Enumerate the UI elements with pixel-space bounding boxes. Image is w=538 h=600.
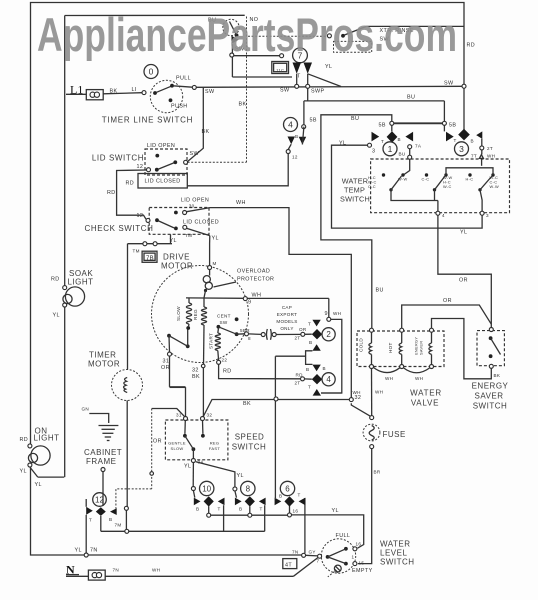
svg-text:12: 12 <box>292 155 298 160</box>
svg-text:YL: YL <box>237 473 244 479</box>
svg-text:BK: BK <box>202 129 210 135</box>
svg-text:WATER: WATER <box>410 388 442 397</box>
svg-text:H-C: H-C <box>466 177 474 182</box>
svg-text:8: 8 <box>248 336 251 341</box>
svg-text:GN: GN <box>82 407 90 412</box>
svg-text:32: 32 <box>355 395 362 401</box>
svg-text:ONLY: ONLY <box>280 326 293 331</box>
svg-text:7B: 7B <box>146 256 154 262</box>
svg-text:SWITCH: SWITCH <box>473 402 508 411</box>
svg-text:OR: OR <box>153 439 162 445</box>
svg-text:0: 0 <box>149 67 154 77</box>
svg-text:YL: YL <box>339 141 346 147</box>
svg-text:CABINET: CABINET <box>84 448 122 457</box>
svg-text:32: 32 <box>207 413 213 418</box>
svg-text:SWITCH: SWITCH <box>340 195 370 204</box>
svg-text:LID CLOSED: LID CLOSED <box>183 220 219 226</box>
svg-text:CHECK SWITCH: CHECK SWITCH <box>85 224 154 233</box>
svg-text:2T: 2T <box>295 336 301 341</box>
svg-text:SWITCH: SWITCH <box>232 443 267 452</box>
svg-text:BU: BU <box>407 95 415 101</box>
svg-text:16: 16 <box>293 509 299 514</box>
svg-text:LID OPEN: LID OPEN <box>181 198 209 204</box>
svg-text:TM: TM <box>133 249 140 254</box>
svg-text:BK: BK <box>243 401 251 407</box>
svg-text:TIMER LINE SWITCH: TIMER LINE SWITCH <box>102 116 193 125</box>
svg-text:4T: 4T <box>285 563 292 569</box>
svg-text:31: 31 <box>176 413 182 418</box>
svg-text:C-C: C-C <box>422 177 430 182</box>
svg-text:5B: 5B <box>449 123 456 129</box>
svg-text:BU: BU <box>376 288 384 294</box>
svg-text:5B: 5B <box>310 118 317 124</box>
svg-text:RD: RD <box>467 43 476 49</box>
svg-text:BK: BK <box>494 373 501 378</box>
svg-text:T: T <box>297 74 301 80</box>
svg-text:2: 2 <box>326 330 331 339</box>
svg-text:SWP: SWP <box>311 89 324 95</box>
svg-text:START: START <box>209 333 214 349</box>
svg-text:B: B <box>239 507 242 512</box>
svg-text:3: 3 <box>372 149 375 155</box>
svg-text:REG: REG <box>210 441 220 446</box>
svg-text:B: B <box>309 340 312 345</box>
svg-text:SW: SW <box>205 89 215 95</box>
svg-text:12: 12 <box>95 495 104 504</box>
svg-text:10: 10 <box>202 484 211 493</box>
svg-text:7N: 7N <box>292 550 298 555</box>
svg-text:LID CLOSED: LID CLOSED <box>144 179 180 185</box>
svg-text:T: T <box>260 507 263 512</box>
svg-text:T: T <box>89 518 92 523</box>
svg-text:SLOW: SLOW <box>176 306 181 321</box>
svg-text:LIGHT: LIGHT <box>34 434 60 443</box>
svg-text:SW: SW <box>280 88 290 94</box>
svg-text:YL: YL <box>212 236 219 242</box>
svg-text:11C: 11C <box>276 68 284 73</box>
svg-text:W-W: W-W <box>490 184 499 189</box>
svg-text:SW: SW <box>220 320 228 325</box>
svg-text:B: B <box>398 137 401 142</box>
svg-text:FUSE: FUSE <box>383 430 406 439</box>
svg-text:2T: 2T <box>295 381 301 386</box>
svg-text:22: 22 <box>222 358 228 363</box>
svg-text:PROTECTOR: PROTECTOR <box>237 277 274 283</box>
svg-text:GENTLE: GENTLE <box>168 441 186 446</box>
svg-text:PULL: PULL <box>176 76 191 82</box>
svg-text:BR: BR <box>374 470 381 475</box>
svg-text:WH: WH <box>252 293 262 299</box>
svg-text:YL: YL <box>20 469 27 475</box>
svg-text:OVERLOAD: OVERLOAD <box>237 269 270 275</box>
svg-text:LIGHT: LIGHT <box>68 278 94 287</box>
svg-text:3: 3 <box>486 213 489 218</box>
svg-text:RD: RD <box>51 277 60 283</box>
svg-text:YL: YL <box>325 64 332 70</box>
svg-text:MOTOR: MOTOR <box>161 262 193 271</box>
svg-text:B: B <box>306 367 309 372</box>
svg-text:WH: WH <box>236 200 246 206</box>
svg-text:MODELS: MODELS <box>276 319 297 324</box>
svg-text:CENT: CENT <box>217 314 231 319</box>
svg-text:EXPORT: EXPORT <box>277 312 298 317</box>
svg-text:WH: WH <box>487 154 495 159</box>
svg-text:M: M <box>213 261 217 266</box>
svg-text:LID OPEN: LID OPEN <box>147 143 175 149</box>
svg-text:GY: GY <box>309 550 316 555</box>
svg-text:RD: RD <box>107 190 116 196</box>
svg-text:SLOW: SLOW <box>171 446 184 451</box>
svg-text:7N: 7N <box>113 568 119 573</box>
svg-text:BK: BK <box>192 374 200 380</box>
svg-text:T: T <box>308 322 311 327</box>
svg-text:W-W: W-W <box>398 177 407 182</box>
svg-text:WH: WH <box>385 376 393 381</box>
svg-text:DRIVE: DRIVE <box>163 253 190 262</box>
svg-text:ENERGY: ENERGY <box>472 382 509 391</box>
svg-text:YL: YL <box>53 313 60 319</box>
svg-text:WH: WH <box>152 568 160 573</box>
svg-text:FRAME: FRAME <box>86 457 117 466</box>
svg-text:T: T <box>308 385 311 390</box>
svg-text:BK: BK <box>110 89 118 95</box>
svg-text:T: T <box>218 507 221 512</box>
svg-text:12: 12 <box>137 213 144 219</box>
svg-text:YL: YL <box>170 238 177 244</box>
svg-text:TEMP: TEMP <box>344 186 365 195</box>
svg-text:OR: OR <box>443 298 452 304</box>
svg-text:9: 9 <box>248 300 251 306</box>
svg-text:EMPTY: EMPTY <box>352 568 373 574</box>
svg-text:1: 1 <box>388 144 393 154</box>
svg-text:RD: RD <box>126 181 135 187</box>
svg-text:4: 4 <box>288 120 293 130</box>
svg-text:TM: TM <box>185 233 192 238</box>
svg-text:LEVEL: LEVEL <box>380 549 407 558</box>
svg-text:12: 12 <box>137 164 144 170</box>
svg-text:7: 7 <box>317 559 320 564</box>
svg-text:YL: YL <box>184 464 191 470</box>
svg-text:AppliancePartsPros.com: AppliancePartsPros.com <box>37 9 457 62</box>
svg-text:VALVE: VALVE <box>411 398 439 407</box>
svg-text:B: B <box>295 134 298 139</box>
svg-text:7N: 7N <box>90 548 98 554</box>
svg-text:B: B <box>279 494 282 499</box>
svg-text:WATER: WATER <box>342 177 369 186</box>
svg-text:BU: BU <box>399 152 406 157</box>
svg-text:B: B <box>109 517 112 522</box>
svg-text:RD: RD <box>20 437 29 443</box>
svg-text:FAST: FAST <box>209 446 220 451</box>
svg-text:BU: BU <box>351 116 359 122</box>
svg-text:RD: RD <box>296 373 304 378</box>
svg-text:30: 30 <box>189 203 195 208</box>
svg-text:B: B <box>323 366 326 371</box>
svg-text:1: 1 <box>352 555 355 560</box>
svg-text:FULL: FULL <box>336 533 351 539</box>
svg-text:TIMER: TIMER <box>89 351 116 360</box>
svg-text:W-C: W-C <box>443 184 452 189</box>
svg-text:T: T <box>381 139 384 144</box>
svg-text:HOT: HOT <box>388 342 393 353</box>
svg-text:C-C: C-C <box>368 184 376 189</box>
svg-text:7A: 7A <box>415 144 422 149</box>
svg-text:16: 16 <box>356 542 362 547</box>
svg-text:8: 8 <box>246 484 251 493</box>
svg-text:B: B <box>471 139 474 144</box>
svg-text:7M: 7M <box>115 523 122 528</box>
svg-text:WH: WH <box>333 311 341 316</box>
svg-text:32: 32 <box>192 368 199 374</box>
svg-text:N: N <box>66 563 75 577</box>
svg-text:MOTOR: MOTOR <box>88 360 120 369</box>
svg-text:SAVER: SAVER <box>474 392 503 401</box>
svg-text:T: T <box>454 138 457 143</box>
svg-text:4: 4 <box>442 213 445 218</box>
svg-text:CAP: CAP <box>282 305 292 310</box>
svg-text:3A: 3A <box>198 460 205 465</box>
svg-text:SAVER: SAVER <box>419 341 424 355</box>
svg-text:YL: YL <box>75 548 82 554</box>
svg-text:WH: WH <box>415 376 423 381</box>
svg-text:SW: SW <box>190 151 200 157</box>
svg-text:15: 15 <box>359 561 365 566</box>
svg-text:YL: YL <box>35 482 42 488</box>
svg-text:31: 31 <box>163 359 170 365</box>
svg-text:REG: REG <box>193 309 198 320</box>
svg-text:WATER: WATER <box>380 540 411 549</box>
svg-text:YL: YL <box>332 508 339 514</box>
svg-text:WH: WH <box>375 390 383 395</box>
svg-text:5BR: 5BR <box>240 328 250 333</box>
svg-text:LID SWITCH: LID SWITCH <box>92 154 144 163</box>
svg-text:OR: OR <box>459 278 468 284</box>
svg-text:BK: BK <box>239 102 247 108</box>
svg-text:PUSH: PUSH <box>171 104 188 110</box>
svg-text:3: 3 <box>459 144 464 154</box>
svg-text:LI: LI <box>132 87 137 93</box>
svg-text:4: 4 <box>326 375 331 384</box>
svg-text:OR: OR <box>161 365 170 371</box>
svg-text:SWITCH: SWITCH <box>380 558 415 567</box>
svg-text:9: 9 <box>325 311 328 317</box>
svg-text:7T: 7T <box>471 154 477 159</box>
svg-text:B: B <box>196 507 199 512</box>
svg-text:5B: 5B <box>379 123 386 129</box>
svg-text:SPEED: SPEED <box>235 433 265 442</box>
svg-text:RD: RD <box>223 369 232 375</box>
svg-text:COLD: COLD <box>359 338 364 352</box>
svg-text:2T: 2T <box>487 146 493 151</box>
svg-text:6: 6 <box>285 484 290 493</box>
svg-text:OR: OR <box>299 327 307 332</box>
svg-text:SW: SW <box>444 81 454 87</box>
svg-text:L1: L1 <box>70 83 83 97</box>
svg-text:YL: YL <box>460 230 467 236</box>
svg-text:T: T <box>298 493 301 498</box>
